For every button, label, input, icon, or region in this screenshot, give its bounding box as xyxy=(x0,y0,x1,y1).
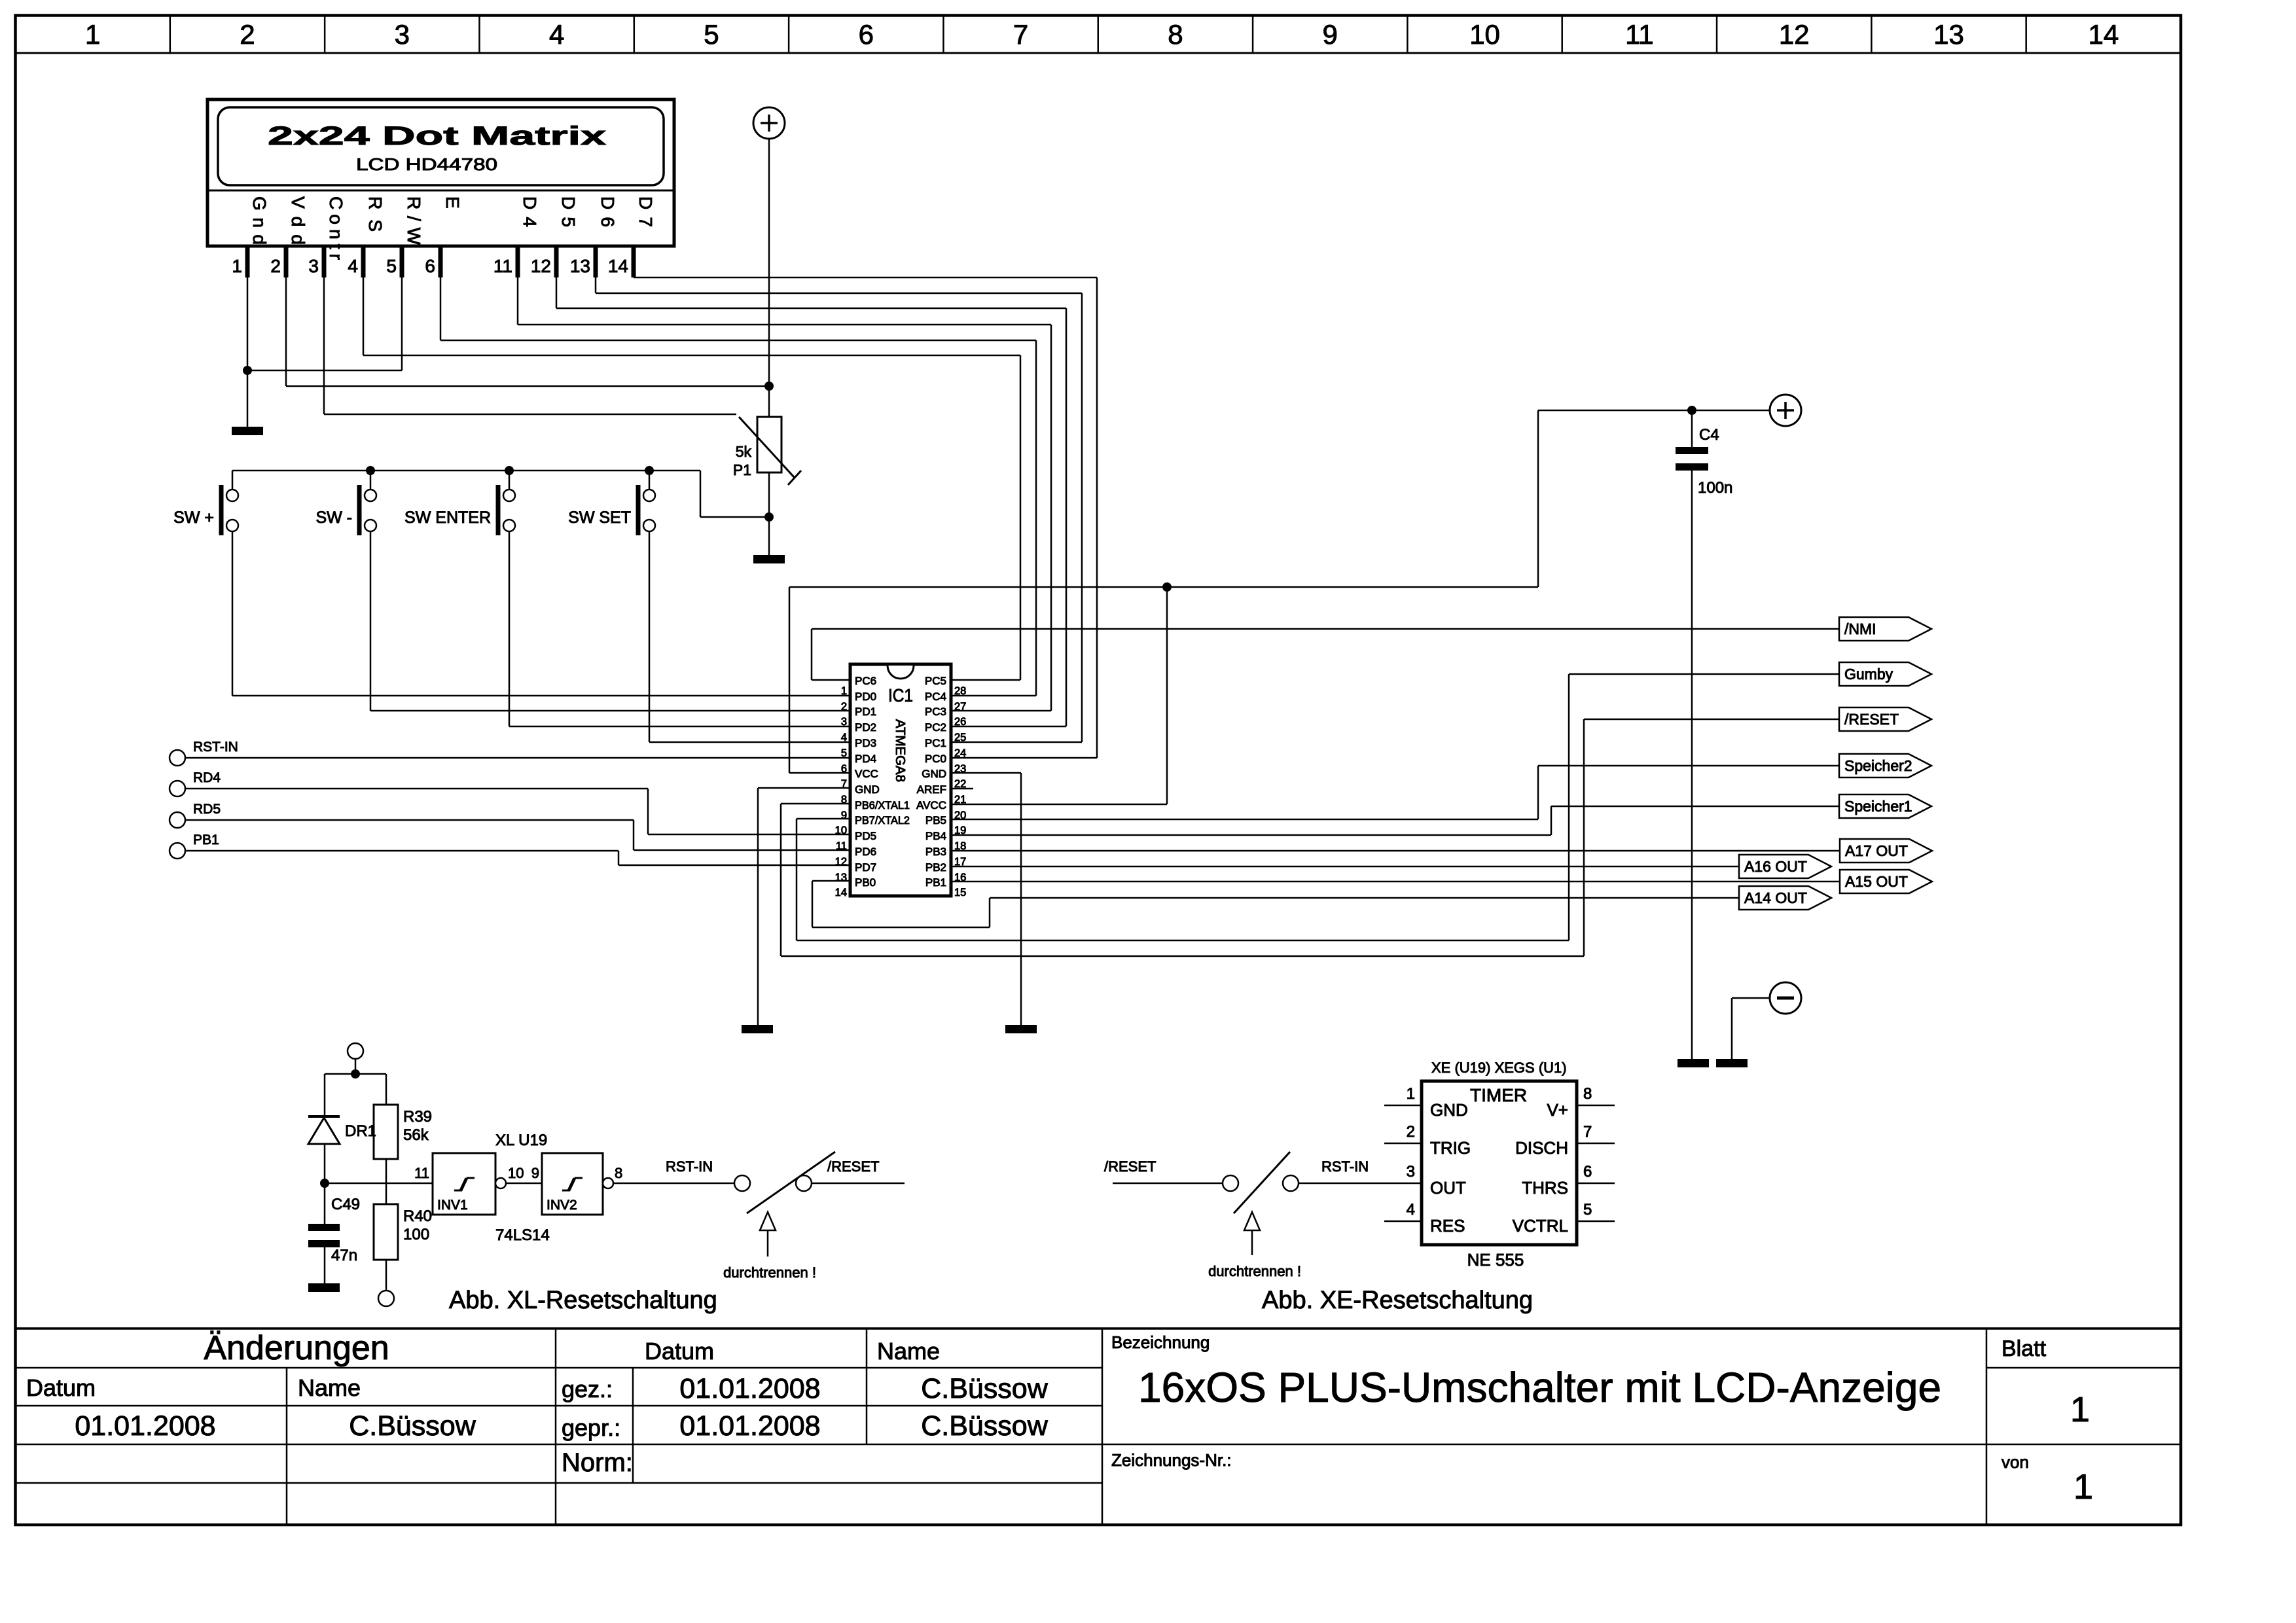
svg-text:5: 5 xyxy=(1583,1201,1592,1219)
wire INV2 to cut xyxy=(613,1183,734,1185)
timer IC NE555 body xyxy=(1422,1081,1577,1245)
pad RD5 xyxy=(170,812,185,828)
arrow durchtrennen XL xyxy=(767,1219,769,1257)
svg-text:gepr.:: gepr.: xyxy=(562,1414,620,1441)
svg-text:SW -: SW - xyxy=(315,508,352,527)
svg-text:PD1: PD1 xyxy=(855,705,876,718)
pad RD4 xyxy=(170,781,185,796)
svg-text:PB1: PB1 xyxy=(193,832,219,847)
switch SW ENTER xyxy=(505,466,514,475)
flag A16 OUT xyxy=(1739,855,1831,878)
svg-text:5: 5 xyxy=(386,256,397,276)
wire GND pin22 xyxy=(951,772,1021,774)
svg-text:PB2: PB2 xyxy=(925,861,946,874)
wire PB6 to /RESET xyxy=(781,803,850,805)
wire PC6 to /NMI xyxy=(812,679,850,681)
svg-text:9: 9 xyxy=(841,810,847,821)
svg-text:2x24 Dot Matrix: 2x24 Dot Matrix xyxy=(268,122,606,151)
flag /RESET xyxy=(1839,707,1931,731)
svg-text:PC1: PC1 xyxy=(925,737,946,749)
node divider junction xyxy=(320,1179,329,1188)
svg-text:27: 27 xyxy=(954,701,966,713)
svg-text:Datum: Datum xyxy=(26,1374,96,1401)
svg-text:XE (U19) XEGS (U1): XE (U19) XEGS (U1) xyxy=(1431,1060,1567,1076)
svg-text:2: 2 xyxy=(1407,1123,1415,1141)
wire RST-IN XE xyxy=(1299,1183,1422,1185)
svg-text:12: 12 xyxy=(835,856,847,868)
svg-text:01.01.2008: 01.01.2008 xyxy=(75,1410,215,1442)
svg-text:PC5: PC5 xyxy=(925,675,946,687)
cut jumper XL xyxy=(734,1175,750,1191)
svg-text:14: 14 xyxy=(608,256,628,276)
svg-text:5: 5 xyxy=(704,19,719,50)
svg-text:1: 1 xyxy=(2070,1390,2090,1429)
svg-text:durchtrennen !: durchtrennen ! xyxy=(1208,1263,1301,1279)
wire Speicher2 net xyxy=(1538,765,1839,767)
svg-text:Datum: Datum xyxy=(645,1338,714,1364)
svg-text:8: 8 xyxy=(1583,1085,1592,1103)
svg-text:PB4: PB4 xyxy=(925,830,946,842)
wire XL top xyxy=(355,1059,357,1074)
svg-text:P1: P1 xyxy=(733,461,751,478)
svg-text:PB0: PB0 xyxy=(855,876,876,889)
svg-text:4: 4 xyxy=(1407,1201,1415,1219)
wire PB1 pin15 to A15 xyxy=(951,881,1840,883)
svg-text:A15 OUT: A15 OUT xyxy=(1845,873,1908,890)
node C4 top junction xyxy=(1687,406,1696,415)
pad XL bottom xyxy=(378,1291,394,1306)
svg-text:74LS14: 74LS14 xyxy=(495,1226,550,1244)
svg-text:D7: D7 xyxy=(636,196,656,227)
wire SW + to IC xyxy=(232,531,234,696)
svg-text:9: 9 xyxy=(531,1165,539,1181)
svg-text:14: 14 xyxy=(835,887,847,899)
svg-text:RST-IN: RST-IN xyxy=(193,740,238,755)
ruler band xyxy=(16,52,2181,54)
node Gnd/RW junction xyxy=(243,366,252,375)
svg-text:/NMI: /NMI xyxy=(1844,620,1876,637)
svg-text:Contr: Contr xyxy=(326,196,346,260)
wire RS to PC5 xyxy=(363,277,365,355)
flag /NMI xyxy=(1839,617,1931,641)
svg-text:VCC: VCC xyxy=(855,768,878,780)
svg-text:9: 9 xyxy=(1323,19,1338,50)
svg-text:1: 1 xyxy=(841,685,847,697)
svg-text:1: 1 xyxy=(1407,1085,1415,1103)
svg-text:7: 7 xyxy=(1013,19,1028,50)
svg-text:8: 8 xyxy=(1168,19,1183,50)
flag Speicher1 xyxy=(1839,794,1931,818)
wire Gnd pin1 down xyxy=(247,277,249,427)
wire XL split xyxy=(325,1073,386,1075)
resistor R40 xyxy=(374,1204,398,1260)
wire /RESET XE xyxy=(1113,1183,1223,1185)
node AVCC junction xyxy=(1162,582,1172,592)
svg-text:INV1: INV1 xyxy=(437,1198,468,1213)
svg-text:PC4: PC4 xyxy=(925,690,946,703)
svg-text:Zeichnungs-Nr.:: Zeichnungs-Nr.: xyxy=(1111,1450,1232,1470)
ground IC pin22 xyxy=(1005,1025,1037,1033)
node Vdd/P1 junction xyxy=(764,382,774,391)
wire RST-IN to PD4 xyxy=(185,757,850,759)
wire PB7 to Gumby xyxy=(797,818,850,820)
svg-text:C.Büssow: C.Büssow xyxy=(921,1410,1049,1442)
svg-text:RST-IN: RST-IN xyxy=(666,1158,713,1175)
wire D6 to PC1 xyxy=(595,277,597,293)
svg-text:Name: Name xyxy=(298,1374,361,1401)
svg-text:01.01.2008: 01.01.2008 xyxy=(679,1373,820,1404)
wire switch bus xyxy=(232,470,700,472)
svg-text:PC3: PC3 xyxy=(925,705,946,718)
-supply terminal xyxy=(1770,982,1801,1014)
svg-text:/RESET: /RESET xyxy=(827,1158,879,1175)
wire PB1 to PD7 xyxy=(185,850,619,852)
svg-text:AVCC: AVCC xyxy=(916,799,946,811)
svg-text:PB3: PB3 xyxy=(925,846,946,858)
svg-text:8: 8 xyxy=(615,1165,622,1181)
svg-text:INV2: INV2 xyxy=(547,1198,577,1213)
wire E to PC4 xyxy=(440,277,442,340)
svg-text:01.01.2008: 01.01.2008 xyxy=(679,1410,820,1442)
svg-text:Name: Name xyxy=(877,1338,940,1364)
wire PB2 to A16 xyxy=(951,866,1739,868)
+5V supply terminal right xyxy=(1770,395,1801,426)
+5V supply terminal top xyxy=(753,107,785,139)
svg-text:28: 28 xyxy=(954,685,966,697)
svg-text:GND: GND xyxy=(922,768,946,780)
cut jumper XE xyxy=(1223,1175,1238,1191)
svg-text:47n: 47n xyxy=(331,1247,357,1264)
ground P1 xyxy=(753,555,785,563)
svg-text:TIMER: TIMER xyxy=(1470,1085,1527,1105)
svg-text:PB5: PB5 xyxy=(925,814,946,827)
ground C49 xyxy=(308,1283,340,1292)
wire Gumby net xyxy=(1569,673,1839,675)
wire D7 to PC0 xyxy=(633,277,635,279)
svg-text:11: 11 xyxy=(414,1165,429,1181)
diode DR1 xyxy=(308,1115,340,1118)
wire divider to INV1 xyxy=(325,1183,433,1185)
ground -supply xyxy=(1716,1059,1748,1067)
svg-text:11: 11 xyxy=(1625,19,1654,50)
wire Speicher1 net xyxy=(1551,806,1839,808)
LCD module LCD1 outline xyxy=(207,99,674,246)
svg-text:C49: C49 xyxy=(331,1196,360,1213)
wire AVCC pin20 xyxy=(951,804,1167,806)
svg-text:25: 25 xyxy=(954,732,966,743)
pad XL top xyxy=(348,1043,363,1059)
switch SW - xyxy=(366,466,375,475)
svg-text:4: 4 xyxy=(549,19,564,50)
wire /NMI net xyxy=(812,628,1839,630)
wire SW - to IC xyxy=(370,531,372,711)
svg-text:26: 26 xyxy=(954,716,966,728)
flag Speicher2 xyxy=(1839,754,1931,777)
svg-text:RS: RS xyxy=(365,196,386,232)
svg-text:OUT: OUT xyxy=(1430,1178,1466,1198)
svg-text:PD0: PD0 xyxy=(855,690,876,703)
svg-text:Speicher1: Speicher1 xyxy=(1844,798,1912,815)
svg-text:6: 6 xyxy=(1583,1163,1592,1181)
svg-text:DR1: DR1 xyxy=(345,1122,376,1140)
svg-text:PB1: PB1 xyxy=(925,876,946,889)
svg-text:PB6/XTAL1: PB6/XTAL1 xyxy=(855,799,910,811)
svg-text:IC1: IC1 xyxy=(888,685,913,705)
svg-text:SW +: SW + xyxy=(173,508,214,527)
wire -supply to ground xyxy=(1732,997,1770,999)
svg-text:C.Büssow: C.Büssow xyxy=(921,1373,1049,1404)
svg-text:RD5: RD5 xyxy=(193,802,221,817)
wire PB0 to A14 xyxy=(812,880,850,882)
svg-text:Blatt: Blatt xyxy=(2001,1336,2047,1361)
svg-text:von: von xyxy=(2001,1452,2029,1472)
switch SW + xyxy=(232,471,234,490)
svg-text:R/W: R/W xyxy=(404,196,424,245)
svg-text:/RESET: /RESET xyxy=(1104,1158,1156,1175)
wire Vdd pin2 xyxy=(285,277,287,386)
svg-text:VCTRL: VCTRL xyxy=(1513,1216,1568,1236)
svg-text:Norm:: Norm: xyxy=(562,1448,633,1477)
svg-text:2: 2 xyxy=(240,19,255,50)
svg-text:2: 2 xyxy=(841,701,847,713)
stub AREF pin21 xyxy=(951,788,973,790)
svg-text:A16 OUT: A16 OUT xyxy=(1744,858,1807,875)
inverter INV2 xyxy=(542,1153,603,1215)
svg-text:C.Büssow: C.Büssow xyxy=(349,1410,476,1442)
svg-text:Abb. XL-Resetschaltung: Abb. XL-Resetschaltung xyxy=(449,1287,717,1314)
title block grid xyxy=(16,1327,2181,1330)
svg-text:E: E xyxy=(442,196,463,209)
wire cut to /RESET XL xyxy=(812,1183,905,1185)
svg-text:16xOS PLUS-Umschalter mit LCD-: 16xOS PLUS-Umschalter mit LCD-Anzeige xyxy=(1138,1364,1941,1411)
flag A17 OUT xyxy=(1840,839,1932,863)
switch SW SET xyxy=(645,466,654,475)
wire RD5 to PD6 xyxy=(185,819,634,821)
svg-text:A17 OUT: A17 OUT xyxy=(1845,842,1908,859)
flag A14 OUT xyxy=(1739,886,1831,910)
pad PB1 xyxy=(170,843,185,859)
capacitor C49 xyxy=(308,1224,340,1231)
resistor R39 xyxy=(374,1105,398,1159)
svg-text:R40: R40 xyxy=(403,1207,432,1225)
wire RD4 to PD5 xyxy=(185,788,648,790)
svg-text:PD5: PD5 xyxy=(855,830,876,842)
svg-text:SW ENTER: SW ENTER xyxy=(404,508,491,527)
node P1 bottom junction xyxy=(764,512,774,522)
wire SW SET to IC xyxy=(649,531,651,742)
wire R40 bottom xyxy=(386,1260,387,1291)
wire PB5 to Speicher2 xyxy=(951,819,1538,821)
svg-text:6: 6 xyxy=(859,19,874,50)
svg-text:THRS: THRS xyxy=(1522,1178,1568,1198)
svg-text:1: 1 xyxy=(85,19,100,50)
svg-text:24: 24 xyxy=(954,747,966,759)
wire R39 R40 xyxy=(386,1159,387,1204)
wire Contr to P1 wiper xyxy=(323,277,325,414)
wire /RESET net xyxy=(1584,719,1839,721)
potentiometer P1 xyxy=(757,417,781,473)
svg-text:12: 12 xyxy=(531,256,551,276)
flag A15 OUT xyxy=(1840,870,1932,893)
wire D4 to PC3 xyxy=(517,277,519,325)
svg-text:1: 1 xyxy=(2073,1467,2093,1507)
svg-text:V+: V+ xyxy=(1547,1100,1568,1120)
svg-text:13: 13 xyxy=(835,872,847,883)
svg-text:11: 11 xyxy=(493,256,512,276)
svg-text:4: 4 xyxy=(348,256,358,276)
svg-text:7: 7 xyxy=(1583,1123,1592,1141)
svg-text:GND: GND xyxy=(1430,1100,1468,1120)
svg-text:Abb. XE-Resetschaltung: Abb. XE-Resetschaltung xyxy=(1262,1287,1533,1314)
svg-text:10: 10 xyxy=(1469,19,1500,50)
svg-text:56k: 56k xyxy=(403,1126,429,1144)
svg-text:SW SET: SW SET xyxy=(568,508,631,527)
svg-text:3: 3 xyxy=(308,256,319,276)
svg-text:13: 13 xyxy=(570,256,590,276)
wire PB4 to Speicher1 xyxy=(951,834,1551,836)
svg-text:/RESET: /RESET xyxy=(1844,711,1899,728)
svg-text:PC0: PC0 xyxy=(925,753,946,765)
svg-text:RST-IN: RST-IN xyxy=(1321,1158,1369,1175)
svg-text:gez.:: gez.: xyxy=(562,1376,613,1402)
capacitor C4 xyxy=(1691,410,1693,447)
inverter INV1 xyxy=(433,1153,495,1215)
arrow durchtrennen XE xyxy=(1251,1219,1253,1255)
svg-text:14: 14 xyxy=(2088,19,2119,50)
ground C4 xyxy=(1677,1059,1709,1067)
pad RST-IN xyxy=(170,750,185,766)
svg-text:6: 6 xyxy=(425,256,435,276)
wire SW ENTER to IC xyxy=(509,531,511,726)
svg-text:4: 4 xyxy=(841,732,847,743)
svg-text:durchtrennen !: durchtrennen ! xyxy=(723,1264,816,1281)
svg-text:R39: R39 xyxy=(403,1108,432,1126)
svg-text:Gnd: Gnd xyxy=(249,196,270,245)
ground LCD Gnd xyxy=(232,427,263,435)
svg-text:LCD HD44780: LCD HD44780 xyxy=(356,154,497,174)
svg-text:D6: D6 xyxy=(598,196,618,227)
wire INV1 INV2 xyxy=(506,1183,542,1185)
svg-text:ATMEGA8: ATMEGA8 xyxy=(893,719,907,782)
svg-text:DISCH: DISCH xyxy=(1515,1138,1568,1158)
wire +5V to P1 xyxy=(768,139,770,417)
svg-text:GND: GND xyxy=(855,783,880,796)
wire DR1 to C49 xyxy=(324,1144,326,1224)
svg-text:13: 13 xyxy=(1933,19,1964,50)
svg-text:Speicher2: Speicher2 xyxy=(1844,757,1912,774)
svg-text:Gumby: Gumby xyxy=(1844,666,1893,683)
svg-text:XL U19: XL U19 xyxy=(495,1132,547,1149)
svg-text:15: 15 xyxy=(954,887,966,899)
svg-text:PD3: PD3 xyxy=(855,737,876,749)
svg-text:C4: C4 xyxy=(1699,426,1719,444)
flag Gumby xyxy=(1839,662,1931,686)
svg-text:2: 2 xyxy=(270,256,281,276)
svg-text:Änderungen: Änderungen xyxy=(204,1329,389,1367)
svg-text:TRIG: TRIG xyxy=(1430,1138,1471,1158)
svg-text:100: 100 xyxy=(403,1226,429,1243)
wire GND pin8 xyxy=(758,787,850,789)
IC IC1 ATMEGA8 body xyxy=(850,664,951,896)
svg-text:Vdd: Vdd xyxy=(288,196,308,245)
svg-text:Bezeichnung: Bezeichnung xyxy=(1111,1332,1210,1352)
svg-text:100n: 100n xyxy=(1698,479,1732,497)
svg-text:PD4: PD4 xyxy=(855,753,876,765)
svg-text:3: 3 xyxy=(1407,1163,1415,1181)
svg-text:D5: D5 xyxy=(558,196,579,227)
svg-text:1: 1 xyxy=(232,256,242,276)
svg-text:PB7/XTAL2: PB7/XTAL2 xyxy=(855,814,910,827)
svg-text:NE 555: NE 555 xyxy=(1467,1250,1524,1270)
svg-text:PD6: PD6 xyxy=(855,846,876,858)
svg-text:3: 3 xyxy=(841,716,847,728)
svg-text:3: 3 xyxy=(395,19,410,50)
svg-text:PD7: PD7 xyxy=(855,861,876,874)
svg-text:RD4: RD4 xyxy=(193,770,221,785)
node XL junction xyxy=(351,1069,360,1079)
wire VCC pin7 xyxy=(789,772,850,774)
svg-text:5k: 5k xyxy=(736,443,752,460)
wire R/W to Gnd xyxy=(401,277,403,370)
wire VCC rail xyxy=(789,586,1538,588)
svg-text:A14 OUT: A14 OUT xyxy=(1744,889,1807,906)
svg-text:PD2: PD2 xyxy=(855,721,876,734)
wire PB3 to A17 xyxy=(951,850,1840,852)
svg-text:PC2: PC2 xyxy=(925,721,946,734)
svg-text:10: 10 xyxy=(508,1165,524,1181)
wire P1 bottom xyxy=(768,473,770,555)
svg-text:AREF: AREF xyxy=(917,783,946,796)
svg-text:PC6: PC6 xyxy=(855,675,876,687)
wire D5 to PC2 xyxy=(556,277,558,308)
ground IC pin8 xyxy=(742,1025,773,1033)
timer pins xyxy=(1384,1105,1422,1107)
svg-text:12: 12 xyxy=(1779,19,1810,50)
svg-text:D4: D4 xyxy=(520,196,540,227)
svg-text:RES: RES xyxy=(1430,1216,1465,1236)
